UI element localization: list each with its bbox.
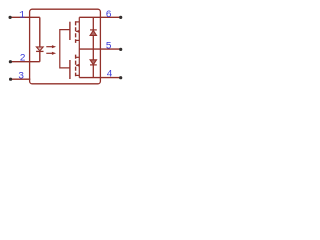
- pin 6 dot: [119, 16, 122, 19]
- transistor Q1 gate bar: [69, 22, 71, 40]
- pin 1 dot: [9, 16, 12, 19]
- component body U1: [30, 9, 101, 84]
- wire LED anode vertical: [39, 17, 41, 47]
- svg-text:2: 2: [20, 54, 26, 65]
- body diode D2 cathode bar: [90, 29, 97, 31]
- body diode D2 bottom lead: [92, 35, 94, 49]
- LED emission arrow upper: [46, 46, 52, 48]
- body diode D2 top lead: [92, 17, 94, 30]
- LED D1 triangle: [36, 47, 43, 51]
- wire drain rail pin 4: [79, 77, 121, 79]
- pin 2 dot: [9, 60, 12, 63]
- gate return wire: [60, 30, 70, 68]
- svg-text:4: 4: [106, 70, 112, 81]
- svg-text:1: 1: [19, 10, 25, 21]
- body diode D2 triangle: [90, 30, 96, 35]
- body diode D3 top lead: [92, 49, 94, 60]
- wire LED cathode vertical: [39, 51, 41, 61]
- pin 5 dot: [119, 48, 122, 51]
- LED D1 cathode bar: [36, 50, 43, 52]
- transistor Q1 drain lead: [76, 21, 80, 23]
- transistor Q2 source lead: [76, 56, 80, 58]
- pin 3 dot: [9, 78, 12, 81]
- pin 1 wire: [10, 16, 40, 18]
- transistor Q1 channel segments: [75, 21, 77, 43]
- transistor Q2 bulk arrow: [76, 64, 79, 66]
- wire FET column: [78, 17, 80, 77]
- transistor Q1 source lead: [76, 39, 80, 41]
- transistor Q1 bulk arrow: [76, 30, 79, 32]
- body diode D3 bottom lead: [92, 65, 94, 78]
- svg-text:6: 6: [106, 10, 112, 21]
- pin 3 wire (NC): [11, 78, 31, 80]
- wire drain rail pin 6: [79, 16, 121, 18]
- wire pin 2: [10, 61, 40, 63]
- transistor Q2 drain lead: [76, 74, 80, 76]
- wire source rail pin 5: [79, 48, 121, 50]
- body diode D3 triangle: [90, 60, 96, 65]
- transistor Q2 gate bar: [69, 60, 71, 79]
- LED emission arrow lower: [46, 52, 52, 54]
- svg-text:3: 3: [18, 71, 24, 82]
- svg-text:5: 5: [106, 42, 112, 53]
- body diode D3 cathode bar: [90, 64, 97, 66]
- pin 4 dot: [119, 76, 122, 79]
- transistor Q2 channel segments: [75, 55, 77, 77]
